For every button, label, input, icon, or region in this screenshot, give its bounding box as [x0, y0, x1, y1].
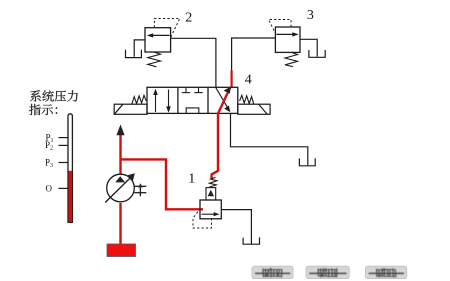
relief valve 2 body [145, 28, 171, 52]
svg-text:P3: P3 [45, 157, 53, 169]
svg-text:3: 3 [307, 8, 314, 23]
valve 3 pilot dashed line [269, 20, 291, 35]
tank symbol (valve 3 drain) [309, 50, 325, 57]
valve 1 pilot dashed [193, 212, 212, 228]
gauge tick P2 [59, 144, 69, 146]
valve 1 adjuster box [206, 188, 216, 200]
svg-text:2: 2 [185, 10, 192, 25]
valve 3 spring [285, 52, 298, 66]
valve 4 centre position blocked ports [182, 87, 203, 113]
valve 1 main body [200, 200, 221, 219]
valve 4 right solenoid [238, 104, 270, 114]
wire: active segment red on B riser [231, 70, 233, 87]
valve 4 left position arrows [153, 89, 171, 113]
valve 2 spring [148, 52, 161, 67]
directional valve 4 main body [147, 87, 238, 113]
svg-text:4: 4 [245, 72, 252, 87]
wire: valve 2 drain to tank [134, 40, 145, 57]
button: stage 3 [365, 266, 406, 278]
flow arrow to valve 4 P [116, 125, 124, 136]
wire: pump outlet up (red) [119, 135, 121, 174]
gauge tick O [59, 187, 69, 189]
relief valve 3 body [275, 27, 300, 52]
label: system pressure indicator text 系统压力指示: [29, 90, 78, 115]
wire: valve 3 drain to tank [300, 39, 317, 56]
gauge tick P3 [59, 162, 69, 164]
button: stage 1 [252, 266, 407, 278]
svg-text:1: 1 [188, 172, 195, 187]
valve 1 adjuster triangle [208, 190, 214, 196]
wire: branch pump to valve 1 (red) [121, 159, 204, 209]
valve 4 left spring [132, 95, 147, 104]
valve 1 remote-control relief: spring [208, 177, 217, 187]
tank symbol (valve 2 drain) [126, 50, 142, 58]
pressure gauge tube [68, 114, 72, 223]
wire: active cross path red P to B [218, 88, 230, 114]
tank T (red reservoir) [107, 244, 136, 257]
tank symbol (valve 4 T) [299, 158, 315, 166]
wire: suction pipe tank to pump (red) [119, 203, 121, 245]
valve 3 internal arrow (right) [277, 32, 299, 36]
gauge tick P1 [59, 137, 69, 139]
valve 2 internal arrow (left) [147, 33, 170, 37]
wire: valve 1 outlet to tank [221, 210, 251, 244]
valve 2 pilot dashed line [154, 19, 179, 38]
wire: valve 4 B-port up-right to valve 3 [232, 38, 276, 87]
valve 4 right spring [240, 95, 254, 104]
pump P1 variable displacement [105, 174, 146, 202]
button: stage 2 [306, 266, 407, 278]
valve 4 right position crossed arrows [216, 88, 230, 113]
tank symbol (valve 1 outlet) [243, 237, 259, 244]
wire: valve 4 T-port to tank bottom right [231, 113, 308, 165]
svg-text:O: O [46, 184, 53, 194]
wire: valve 4 A-port up-left to valve 2 [171, 38, 216, 87]
gauge red fill [68, 171, 72, 222]
valve 1 internal arrow [202, 212, 220, 216]
valve 4 left solenoid [114, 104, 147, 114]
wire: red from valve 4 down to valve 1 remote port [212, 113, 218, 180]
